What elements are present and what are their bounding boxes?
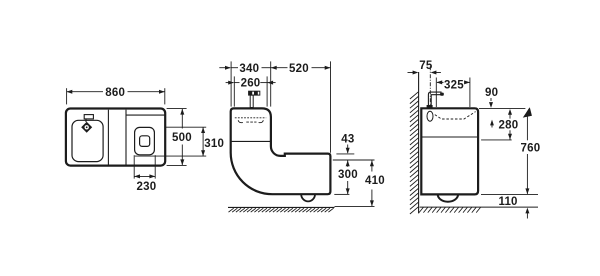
dim line 410 xyxy=(371,160,373,171)
floor line right view xyxy=(420,206,538,208)
dim line 310 xyxy=(202,127,204,156)
230 extension right xyxy=(154,155,156,178)
dim arrow 43 xyxy=(347,145,349,153)
svg-text:90: 90 xyxy=(485,87,498,99)
dim 75 xyxy=(408,72,417,74)
extension line 520 right xyxy=(330,61,332,152)
310 top extension xyxy=(166,126,207,128)
bowl outer square plan xyxy=(135,127,155,154)
unit outline plan xyxy=(66,109,165,166)
faucet side xyxy=(428,92,441,107)
svg-text:300: 300 xyxy=(338,169,358,181)
unit outline side xyxy=(421,108,478,194)
dim line 500 xyxy=(181,109,183,129)
dim line 860 xyxy=(67,91,104,93)
hook arrow symbol xyxy=(523,107,532,117)
280 bottom extension xyxy=(481,139,512,141)
dim line 280 xyxy=(509,110,511,118)
dim line 260 xyxy=(226,82,234,84)
divider line 1 xyxy=(107,110,109,166)
svg-text:260: 260 xyxy=(241,78,261,90)
svg-text:310: 310 xyxy=(204,138,224,150)
tank line side xyxy=(422,136,478,138)
washbasin plan xyxy=(72,120,103,161)
extension line 260 right xyxy=(266,76,268,106)
extension line 340 right / 520 left xyxy=(270,61,272,106)
500 bottom extension xyxy=(167,164,187,166)
860 extension left xyxy=(66,88,68,104)
faucet stem plan xyxy=(85,119,87,122)
floor hatching right view xyxy=(419,207,481,212)
faucet flag plan xyxy=(84,115,93,119)
faucet valve diamond xyxy=(81,122,92,133)
325 tick right xyxy=(469,78,471,108)
unit outline profile xyxy=(231,108,331,194)
unit bottom extension xyxy=(481,194,538,196)
dim arrow 90 xyxy=(490,98,492,101)
basin interior dashed rim xyxy=(235,117,266,119)
svg-text:230: 230 xyxy=(137,181,157,193)
basin separation line xyxy=(231,140,270,142)
faucet centerline dash-dot xyxy=(429,66,431,106)
svg-text:75: 75 xyxy=(419,60,433,72)
860 extension right xyxy=(164,88,166,104)
dim line 760 xyxy=(526,117,528,141)
seat top line xyxy=(126,114,165,116)
svg-text:325: 325 xyxy=(444,79,464,91)
dim line 340 xyxy=(219,67,230,69)
svg-text:43: 43 xyxy=(341,134,354,146)
drain bump middle xyxy=(301,194,315,201)
wall line xyxy=(418,72,420,213)
svg-text:760: 760 xyxy=(521,142,541,154)
siphon ellipse side xyxy=(427,111,433,121)
seat front line / 310 bottom extension xyxy=(135,155,206,157)
svg-text:500: 500 xyxy=(172,132,192,144)
dim line 300 xyxy=(347,160,349,166)
ground line middle xyxy=(228,206,335,208)
230 extension left xyxy=(133,155,135,178)
extension line 260 left xyxy=(233,76,235,106)
bowl inner square plan xyxy=(140,136,150,147)
dim arrow 90 lower xyxy=(491,122,493,128)
dim arrow 110 xyxy=(526,210,528,219)
300/410 top extension xyxy=(333,159,375,161)
svg-text:340: 340 xyxy=(239,63,259,75)
svg-text:520: 520 xyxy=(289,63,309,75)
top extension line right view xyxy=(479,107,525,109)
svg-text:860: 860 xyxy=(105,87,125,99)
basin interior dashed trough xyxy=(238,120,243,122)
svg-text:110: 110 xyxy=(499,196,518,208)
drain bump side xyxy=(438,194,458,201)
svg-text:280: 280 xyxy=(499,120,519,132)
svg-text:410: 410 xyxy=(365,175,385,187)
325 tick left xyxy=(435,78,437,108)
dim line 230 xyxy=(134,175,155,177)
faucet front xyxy=(249,91,260,95)
basin dashed profile side xyxy=(435,112,476,119)
faucet stem front xyxy=(250,95,253,107)
extension line 340 left xyxy=(230,61,232,106)
wall hatching xyxy=(410,92,419,214)
dim line 325 xyxy=(436,80,442,84)
ground hatching middle xyxy=(229,208,334,212)
divider line 2 xyxy=(125,110,127,166)
43 extension line xyxy=(336,153,354,155)
dim line 520 (shared arrow at 270.7) xyxy=(271,66,277,70)
300 bottom extension xyxy=(334,193,349,195)
500 top extension xyxy=(167,108,187,110)
